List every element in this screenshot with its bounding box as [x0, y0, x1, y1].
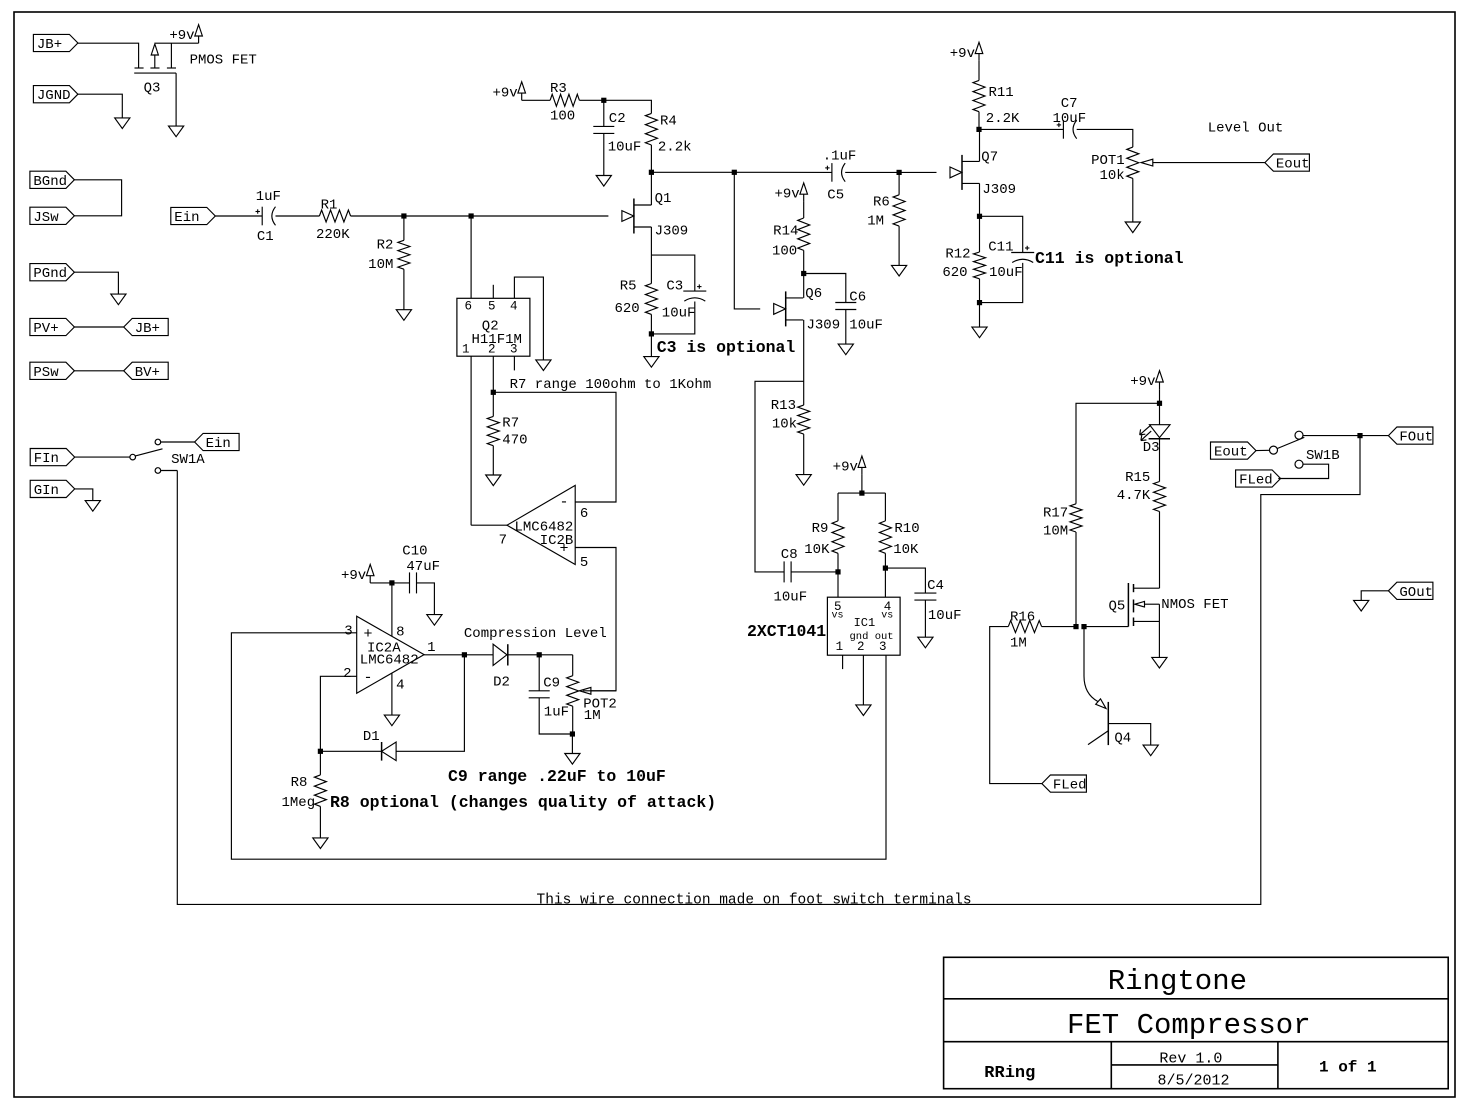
wire C1 to R1: [276, 215, 320, 217]
svg-text:.1uF: .1uF: [823, 149, 857, 165]
svg-text:R16: R16: [1010, 610, 1035, 626]
wire to ground (R12): [979, 303, 981, 328]
ground (JGND): [115, 118, 130, 129]
tag Eout (switch): [1211, 442, 1257, 459]
wire PV+ to JB+: [74, 326, 123, 328]
svg-text:FIn: FIn: [34, 451, 59, 467]
svg-text:Level Out: Level Out: [1208, 121, 1284, 137]
ground (R5/C3): [644, 357, 659, 368]
wire R3 to R4: [579, 100, 651, 113]
svg-text:4.7K: 4.7K: [1117, 488, 1151, 504]
svg-text:1M: 1M: [867, 214, 884, 230]
svg-text:2: 2: [857, 640, 865, 654]
svg-text:10uF: 10uF: [662, 306, 696, 322]
svg-text:C10: C10: [402, 544, 427, 560]
svg-text:JB+: JB+: [37, 37, 62, 53]
resistor R16: [1008, 621, 1041, 633]
svg-text:IC2B: IC2B: [540, 533, 574, 549]
tag FIn: [30, 449, 74, 466]
wire GIn to ground: [75, 489, 93, 501]
wire Ein to C1: [215, 215, 262, 217]
wire Q2 pin1 to IC2B output: [470, 356, 472, 525]
svg-text:C7: C7: [1061, 96, 1078, 112]
svg-text:620: 620: [614, 301, 639, 317]
tag FLed (switch): [1236, 470, 1281, 487]
ground (R8): [313, 838, 328, 849]
resistor R17: [1070, 504, 1082, 532]
svg-text:PMOS FET: PMOS FET: [190, 53, 257, 69]
wire Q6 source up: [803, 274, 805, 298]
power +9v (R9/R10): [858, 456, 866, 467]
svg-text:PV+: PV+: [33, 321, 58, 337]
junction R1/R2: [401, 213, 406, 218]
svg-text:Q3: Q3: [144, 81, 161, 97]
wire IC2B pin5 to POT2 wiper: [575, 548, 616, 691]
wire foot switch loop SW1A to FOut node: [177, 436, 1360, 905]
svg-text:R11: R11: [989, 85, 1014, 101]
wire BGnd to JSw: [74, 180, 121, 216]
svg-text:C11: C11: [988, 240, 1013, 256]
svg-text:C6: C6: [849, 290, 866, 306]
svg-text:R3: R3: [550, 81, 567, 97]
svg-text:R5: R5: [620, 279, 637, 295]
pin 1 stub (IC1): [842, 655, 844, 669]
resistor R8: [319, 751, 321, 775]
transistor Q1 J309 JFET: [622, 211, 634, 222]
tag GOut: [1388, 582, 1433, 599]
capacitor C1: [261, 207, 263, 226]
tag JB+ (right): [124, 318, 169, 335]
svg-text:2XCT1041: 2XCT1041: [747, 622, 826, 641]
pin 5 stub (Q2): [492, 285, 494, 299]
switch SW1A: [130, 454, 136, 460]
resistor R10: [879, 521, 891, 553]
wire R11 to C7: [979, 128, 1063, 130]
svg-text:3: 3: [879, 640, 887, 654]
svg-text:C1: C1: [257, 229, 274, 245]
tag PV+: [30, 318, 75, 335]
svg-text:10k: 10k: [772, 417, 797, 433]
svg-text:1M: 1M: [584, 708, 601, 724]
svg-text:BV+: BV+: [135, 365, 160, 381]
wire Eout to SW1B: [1256, 449, 1270, 451]
svg-text:620: 620: [942, 265, 967, 281]
wire D1 branch down: [396, 655, 464, 752]
junction C8/R9/IC1 pin5: [835, 569, 840, 574]
power +9v (D3): [1156, 371, 1164, 382]
svg-text:5: 5: [488, 300, 496, 314]
wire PGnd to ground: [74, 272, 118, 294]
junction R10/C4/IC1 pin4: [883, 566, 888, 571]
resistor R1: [319, 210, 350, 222]
svg-text:1uF: 1uF: [544, 705, 569, 721]
svg-text:PSw: PSw: [33, 365, 59, 381]
transistor Q6 J309 JFET: [774, 304, 786, 315]
wire C6 branch: [804, 274, 846, 303]
svg-text:10K: 10K: [893, 542, 919, 558]
svg-text:This wire connection made on f: This wire connection made on foot switch…: [537, 893, 972, 909]
svg-text:JSw: JSw: [33, 210, 59, 226]
svg-text:5: 5: [580, 555, 588, 571]
ground (GOut): [1354, 600, 1369, 611]
svg-text:+9v: +9v: [1130, 374, 1155, 390]
wire IC1 pin5: [837, 572, 839, 597]
resistor R4: [645, 113, 657, 145]
svg-text:10K: 10K: [804, 542, 830, 558]
resistor R11: [973, 80, 985, 111]
svg-text:Eout: Eout: [1276, 157, 1310, 173]
svg-text:LMC6482: LMC6482: [360, 653, 419, 669]
resistor R6: [898, 172, 900, 194]
svg-text:Rev 1.0: Rev 1.0: [1159, 1051, 1222, 1068]
wire Q6 drain to R13: [803, 320, 805, 405]
svg-text:PGnd: PGnd: [33, 266, 67, 282]
svg-text:+9v: +9v: [169, 28, 194, 44]
capacitor C10: [409, 572, 411, 593]
svg-text:R13: R13: [771, 398, 796, 414]
transistor Q4: [1084, 627, 1098, 702]
svg-text:3: 3: [344, 624, 352, 640]
ground (IC1 pin2): [856, 705, 871, 716]
wire feedback R7 node to IC2B pin6: [493, 392, 616, 502]
svg-text:vs: vs: [881, 611, 893, 622]
svg-text:4: 4: [396, 678, 404, 694]
ground (R13): [796, 475, 811, 486]
junction C5/R6: [897, 170, 902, 175]
svg-text:SW1B: SW1B: [1306, 448, 1340, 464]
svg-text:1: 1: [462, 343, 470, 357]
wire FIn to SW1A: [75, 456, 130, 458]
ground (Q5): [1152, 657, 1167, 668]
svg-text:-: -: [559, 494, 568, 511]
svg-text:Q7: Q7: [981, 150, 998, 166]
wire JGND to ground: [78, 94, 122, 118]
wire +9v to C10: [370, 582, 409, 584]
title block: [944, 957, 1449, 1089]
pin 3 stub (Q2): [513, 356, 515, 370]
junction D1/R8: [318, 749, 323, 754]
tag GIn: [30, 480, 74, 497]
svg-text:SW1A: SW1A: [171, 452, 205, 468]
svg-text:R9: R9: [812, 521, 829, 537]
capacitor C8: [783, 561, 785, 582]
svg-text:Q5: Q5: [1108, 599, 1125, 615]
svg-text:IC1: IC1: [854, 616, 876, 630]
svg-text:JB+: JB+: [135, 321, 160, 337]
svg-text:6: 6: [580, 506, 588, 522]
svg-text:Eout: Eout: [1214, 445, 1248, 461]
wire SW1B to FOut: [1303, 435, 1388, 437]
svg-text:C3: C3: [666, 279, 683, 295]
svg-text:C5: C5: [827, 188, 844, 204]
svg-text:10uF: 10uF: [989, 265, 1023, 281]
svg-text:2: 2: [343, 666, 351, 682]
svg-text:1M: 1M: [1010, 636, 1027, 652]
wire Q1 source to R5: [650, 227, 652, 284]
svg-text:C11 is optional: C11 is optional: [1035, 249, 1184, 268]
wire +9v to junction: [1159, 389, 1161, 403]
tag BGnd: [30, 171, 75, 188]
svg-text:R8 optional (changes quality o: R8 optional (changes quality of attack): [330, 793, 716, 812]
ground (Q4): [1143, 745, 1158, 756]
wire C9 top: [538, 655, 540, 691]
svg-text:10uF: 10uF: [928, 608, 962, 624]
svg-text:10k: 10k: [1099, 168, 1124, 184]
junction +9v R9/R10: [859, 491, 864, 496]
svg-text:+9v: +9v: [492, 85, 517, 101]
svg-text:C2: C2: [609, 111, 626, 127]
capacitor C3: [683, 290, 706, 292]
ground (POT1): [1125, 222, 1140, 233]
op-amp IC2A LMC6482: [357, 616, 424, 693]
ground (C9/POT2): [565, 754, 580, 765]
svg-text:+9v: +9v: [950, 46, 975, 62]
power +9v (IC2A): [366, 564, 374, 575]
svg-text:2: 2: [488, 343, 496, 357]
svg-text:+9v: +9v: [774, 186, 799, 202]
ground (IC2A pin4): [384, 715, 399, 726]
svg-text:J309: J309: [982, 182, 1016, 198]
resistor R3: [550, 94, 579, 106]
wire Q7 drain: [979, 129, 981, 161]
resistor R12: [979, 216, 981, 252]
svg-text:R2: R2: [377, 238, 394, 254]
junction gate node: [469, 213, 474, 218]
resistor R7: [492, 392, 494, 416]
ground (R6): [892, 265, 907, 276]
power +9v (R11): [975, 42, 983, 53]
potentiometer POT1 10k: [1127, 147, 1139, 178]
ground (PGnd): [111, 294, 126, 305]
resistor R2: [403, 216, 405, 240]
svg-text:1Meg: 1Meg: [281, 795, 315, 811]
svg-text:POT1: POT1: [1091, 153, 1125, 169]
ground (R12/C11): [972, 327, 987, 338]
potentiometer POT2 1M: [572, 655, 574, 676]
tag Ein (switch): [195, 433, 240, 450]
junction D1 branch: [462, 652, 467, 657]
capacitor C5: [831, 163, 833, 182]
resistor R9: [832, 521, 844, 553]
svg-text:C3 is optional: C3 is optional: [657, 338, 796, 357]
resistor R14: [798, 218, 810, 250]
wire Q1 drain to C5: [651, 171, 832, 173]
capacitor C6: [835, 302, 856, 304]
svg-text:8/5/2012: 8/5/2012: [1158, 1073, 1230, 1090]
wire IC1 pin2 to ground: [862, 655, 864, 705]
wire +9v to Q3: [155, 42, 199, 44]
wire Q5 gate: [1084, 626, 1128, 628]
ground (C10): [427, 615, 442, 626]
transistor Q3 PMOS FET: [135, 67, 144, 69]
wire big loop IC1 pin3 to IC2A pin3: [231, 633, 886, 859]
tag JSw: [30, 207, 75, 224]
tag JB+: [33, 34, 78, 51]
svg-text:FLed: FLed: [1239, 473, 1273, 489]
svg-text:FET Compressor: FET Compressor: [1067, 1009, 1311, 1042]
svg-text:10M: 10M: [368, 257, 393, 273]
svg-text:220K: 220K: [316, 227, 350, 243]
resistor R5: [645, 284, 657, 315]
svg-text:1: 1: [427, 640, 435, 656]
wire Q7 source: [979, 183, 981, 216]
wire IC2A pin2: [320, 676, 356, 751]
wire +9v bracket: [861, 475, 863, 494]
svg-text:1: 1: [836, 640, 844, 654]
svg-text:GIn: GIn: [34, 483, 59, 499]
svg-text:+9v: +9v: [833, 460, 858, 476]
junction Q7 source/R12/C11: [977, 214, 982, 219]
resistor R15: [1154, 482, 1166, 512]
svg-text:FLed: FLed: [1053, 778, 1087, 794]
tag Eout (level): [1265, 154, 1310, 171]
wire to ground (R5): [650, 334, 652, 357]
wire Q1 drain: [650, 172, 652, 205]
svg-text:47uF: 47uF: [406, 559, 440, 575]
svg-text:470: 470: [502, 433, 527, 449]
junction R4/Q1 drain: [649, 170, 654, 175]
wire GOut to ground: [1361, 591, 1388, 601]
tag FLed (bottom): [1042, 775, 1087, 792]
wire IC2A pin4 to ground: [391, 673, 393, 715]
wire branch to C3: [651, 255, 694, 291]
junction R11/Q7 drain/C7: [976, 127, 981, 132]
junction R16/R17/Q5 gate: [1073, 624, 1078, 629]
svg-text:Ringtone: Ringtone: [1108, 965, 1247, 998]
tag FOut: [1388, 427, 1433, 444]
ground (C4): [918, 637, 933, 648]
svg-text:R10: R10: [894, 521, 919, 537]
tag PSw: [30, 362, 75, 379]
wire C11 bottom: [980, 263, 1023, 303]
wire C8 to R9 node: [791, 571, 838, 573]
wire IC2A pin8: [391, 583, 393, 636]
svg-text:10uF: 10uF: [849, 318, 883, 334]
svg-text:Ein: Ein: [174, 210, 199, 226]
diode D1: [382, 742, 397, 761]
junction R14/Q6 source/C6: [801, 271, 806, 276]
svg-text:100: 100: [772, 244, 797, 260]
wire C3 bottom: [651, 302, 694, 334]
svg-text:Q6: Q6: [805, 286, 822, 302]
svg-text:D3: D3: [1143, 440, 1160, 456]
junction +9v/R17/D3: [1157, 401, 1162, 406]
power +9v (R14): [800, 183, 808, 194]
wire +9v to R3: [522, 99, 550, 101]
svg-text:R8: R8: [291, 775, 308, 791]
wire Q3 gate to ground: [175, 73, 177, 126]
tag BV+: [124, 362, 169, 379]
svg-text:7: 7: [499, 533, 507, 549]
svg-text:-: -: [364, 669, 373, 686]
power +9v (R3): [518, 82, 526, 93]
svg-text:C9 range .22uF to 10uF: C9 range .22uF to 10uF: [448, 767, 666, 786]
wire C7 to POT1: [1077, 129, 1133, 147]
svg-text:+9v: +9v: [341, 568, 366, 584]
svg-text:Ein: Ein: [206, 436, 231, 452]
junction R5/C3: [649, 331, 654, 336]
wire R1 to Q1 gate: [351, 215, 609, 217]
svg-text:6: 6: [465, 300, 473, 314]
wire Q1 drain to Q6 gate: [734, 172, 760, 309]
ground (GIn): [85, 501, 100, 512]
capacitor C4: [914, 592, 936, 594]
wire Q2 pin2 to R7 node: [492, 356, 494, 392]
svg-text:NMOS FET: NMOS FET: [1161, 597, 1228, 613]
op-amp IC2B LMC6482: [507, 485, 575, 564]
svg-text:R7: R7: [502, 416, 519, 432]
wire D3 to R15: [1159, 439, 1161, 482]
svg-text:8: 8: [396, 625, 404, 641]
svg-text:J309: J309: [807, 318, 841, 334]
capacitor C7: [1062, 120, 1064, 139]
svg-text:C9: C9: [543, 676, 560, 692]
ground (Q3): [169, 126, 184, 137]
svg-text:R17: R17: [1043, 506, 1068, 522]
svg-text:1uF: 1uF: [256, 189, 281, 205]
svg-text:3: 3: [510, 343, 518, 357]
tag PGnd: [30, 264, 75, 281]
junction C9/POT2 bottom: [570, 731, 575, 736]
svg-text:Compression Level: Compression Level: [464, 626, 607, 642]
wire branch to C8 column: [755, 381, 804, 572]
wire to ground (POT2): [571, 734, 573, 754]
wire D2 to C9/POT2: [508, 654, 573, 656]
svg-text:R1: R1: [321, 198, 338, 214]
wire to R17: [1076, 403, 1160, 504]
svg-text:2.2K: 2.2K: [986, 111, 1020, 127]
svg-text:R15: R15: [1125, 470, 1150, 486]
transistor Q5 NMOS FET: [1127, 583, 1129, 627]
svg-text:10uF: 10uF: [608, 140, 642, 156]
ground (C2): [596, 176, 611, 187]
svg-text:R6: R6: [873, 195, 890, 211]
junction R3/C2: [601, 98, 606, 103]
wire SW1A to Ein: [161, 441, 195, 443]
svg-text:FOut: FOut: [1399, 430, 1433, 446]
junction D2/C9: [537, 652, 542, 657]
ground (R7): [486, 475, 501, 486]
svg-text:R14: R14: [773, 224, 798, 240]
tag Ein (input): [171, 207, 216, 224]
svg-text:vs: vs: [832, 611, 844, 622]
svg-text:2.2k: 2.2k: [658, 140, 692, 156]
wire R16 left to FLed: [990, 627, 1042, 784]
power +9v (Q3): [195, 25, 203, 36]
svg-text:10uF: 10uF: [774, 590, 808, 606]
svg-text:R4: R4: [660, 114, 677, 130]
wire PSw to BV+: [74, 370, 123, 372]
wire to C11 top: [980, 216, 1023, 252]
junction R7 node: [491, 390, 496, 395]
junction Q6 gate branch: [732, 170, 737, 175]
svg-text:Q1: Q1: [655, 191, 672, 207]
wire C9 bottom: [539, 698, 572, 734]
ground (Q2 pin4): [536, 360, 551, 371]
svg-text:D1: D1: [363, 729, 380, 745]
junction FOut node: [1357, 433, 1362, 438]
LED D3: [1159, 403, 1161, 424]
wire C5 to Q7 gate: [845, 171, 936, 173]
svg-text:C8: C8: [781, 547, 798, 563]
ground (R2): [396, 310, 411, 321]
svg-text:100: 100: [550, 109, 575, 125]
wire IC1 pin4: [884, 568, 886, 597]
wire C4 branch: [885, 568, 925, 593]
wire D1 to R8 node: [320, 750, 381, 752]
svg-text:Q4: Q4: [1114, 731, 1131, 747]
wire +9v to R14: [803, 201, 805, 218]
